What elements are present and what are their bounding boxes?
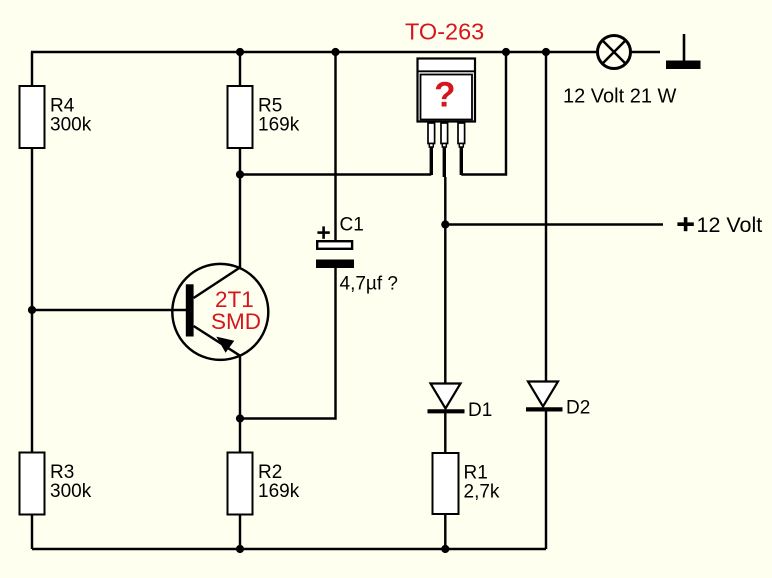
svg-text:169k: 169k xyxy=(258,115,300,136)
svg-text:R5: R5 xyxy=(258,96,282,117)
svg-text:169k: 169k xyxy=(258,481,300,502)
node top rail at D2 riser xyxy=(542,48,550,56)
node base xyxy=(28,306,36,314)
svg-text:D1: D1 xyxy=(468,400,492,421)
resistor R5 xyxy=(228,86,300,148)
svg-text:TO-263: TO-263 xyxy=(405,18,484,44)
wire pin3 to right riser xyxy=(461,52,506,175)
wire left vertical rail xyxy=(31,52,33,549)
pin 1 xyxy=(428,123,435,175)
wire emitter to R2 xyxy=(239,355,241,453)
node bottom rail at R2 xyxy=(236,545,244,553)
svg-text:R4: R4 xyxy=(50,96,75,117)
svg-text:R2: R2 xyxy=(258,462,282,483)
node top rail at pin3 riser xyxy=(502,48,510,56)
svg-text:12 Volt 21 W: 12 Volt 21 W xyxy=(563,86,677,108)
wire R5 bottom to collector xyxy=(239,148,241,269)
resistor R3 xyxy=(20,453,92,515)
svg-text:300k: 300k xyxy=(50,481,92,502)
node +12V xyxy=(441,220,449,228)
svg-text:?: ? xyxy=(434,76,455,115)
diode D1 xyxy=(428,384,493,422)
svg-text:4,7µf ?: 4,7µf ? xyxy=(340,274,398,295)
wire lamp right segment xyxy=(631,51,661,53)
plus sign C1 xyxy=(317,226,329,238)
wire C1 bottom to emitter node xyxy=(240,268,336,419)
node top rail at R5 xyxy=(236,48,244,56)
wire top horizontal rail xyxy=(31,51,598,53)
node bottom rail at R1 xyxy=(441,545,449,553)
resistor R4 xyxy=(20,86,92,148)
svg-text:C1: C1 xyxy=(340,215,364,236)
node top rail at C1 xyxy=(331,48,339,56)
wire collector horizontal to pin1 xyxy=(240,173,431,175)
wire D2 riser top xyxy=(545,52,547,382)
svg-text:R3: R3 xyxy=(50,462,74,483)
resistor R1 xyxy=(433,453,500,514)
wire base horizontal xyxy=(32,309,186,311)
resistor R2 xyxy=(228,453,300,515)
node collector xyxy=(236,170,244,178)
wire bottom horizontal rail xyxy=(32,548,546,550)
wire R1 bottom xyxy=(444,514,446,549)
svg-text:12 Volt: 12 Volt xyxy=(697,213,763,237)
pin 2 xyxy=(441,123,448,177)
ground xyxy=(666,34,701,69)
plus sign 12V xyxy=(677,217,693,231)
wire D2 bottom xyxy=(545,411,547,549)
svg-text:SMD: SMD xyxy=(211,309,261,334)
capacitor C1 xyxy=(316,215,364,269)
lamp LA1 12V 21W xyxy=(598,36,631,69)
wire C1 top xyxy=(334,52,336,240)
svg-text:D2: D2 xyxy=(566,398,590,419)
svg-text:300k: 300k xyxy=(50,115,92,136)
diode D2 xyxy=(526,382,590,419)
pin 3 xyxy=(458,123,465,175)
wire +12V feed xyxy=(445,223,663,225)
svg-text:R1: R1 xyxy=(464,463,488,484)
transistor Q1 2T1 SMD xyxy=(172,264,268,360)
wire R5 top xyxy=(239,52,241,86)
node emitter xyxy=(236,414,244,422)
svg-text:2,7k: 2,7k xyxy=(464,482,500,503)
wire pin2 down to D1 xyxy=(444,177,446,384)
IC U1 TO-263 package xyxy=(418,59,476,122)
wire D1 to R1 xyxy=(444,413,446,453)
wire R2 bottom xyxy=(239,515,241,550)
